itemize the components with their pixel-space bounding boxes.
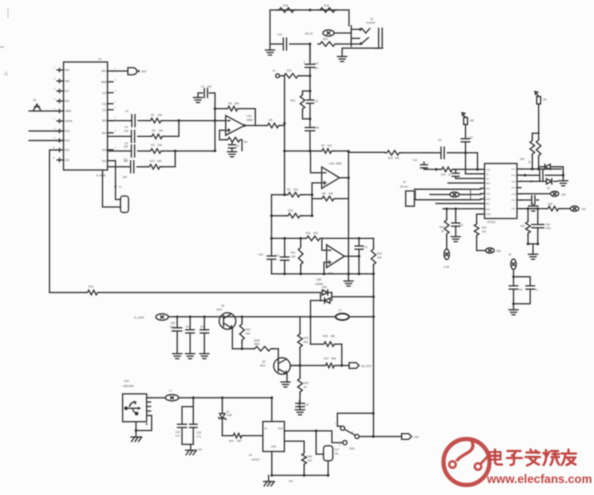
connector CN1 USB bbox=[123, 394, 147, 422]
wire pin4 row bbox=[448, 182, 481, 184]
svg-text:IN: IN bbox=[265, 427, 268, 430]
node A3 bbox=[360, 42, 363, 45]
svg-text:9014: 9014 bbox=[260, 364, 266, 367]
svg-text:R27: R27 bbox=[324, 356, 329, 360]
node D4 bbox=[311, 193, 314, 196]
svg-text:4R7: 4R7 bbox=[237, 440, 242, 443]
svg-text:104: 104 bbox=[124, 129, 129, 133]
resistor R3 bbox=[149, 149, 164, 154]
IC U3 bbox=[485, 164, 518, 219]
capacitor C14 bbox=[465, 125, 467, 139]
svg-text:C16: C16 bbox=[314, 62, 319, 66]
wire pin7 row bbox=[414, 199, 480, 201]
resistor R33 bbox=[474, 222, 479, 237]
svg-text:C22: C22 bbox=[304, 402, 309, 406]
wire loop bbox=[514, 277, 531, 310]
svg-text:R23: R23 bbox=[246, 327, 251, 331]
capacitor C7 with ground bbox=[198, 93, 215, 98]
watermark CJK text bbox=[490, 450, 503, 465]
wire pin10 bbox=[477, 214, 481, 222]
crystal Y1 bbox=[103, 161, 121, 207]
resistor R19 bbox=[318, 8, 337, 13]
svg-text:C7: C7 bbox=[201, 84, 205, 88]
wire bbox=[244, 125, 265, 127]
node I3 bbox=[303, 474, 306, 477]
node L2 bbox=[512, 302, 515, 305]
svg-text:C5: C5 bbox=[125, 142, 129, 146]
node K1 bbox=[531, 168, 534, 171]
wire long bottom-left bbox=[50, 292, 321, 294]
IC U1 A-7545 bbox=[64, 62, 108, 170]
wire right rail bbox=[373, 274, 375, 437]
jack J3 bbox=[351, 26, 382, 48]
svg-text:C8: C8 bbox=[236, 144, 240, 148]
node A5 bbox=[309, 90, 312, 93]
wire bbox=[270, 10, 349, 50]
resistor R35 bbox=[302, 451, 307, 466]
wire row r1 bbox=[521, 168, 561, 170]
capacitor C13 with stub bbox=[423, 162, 425, 164]
svg-text:R34: R34 bbox=[229, 440, 234, 443]
svg-text:OS1: OS1 bbox=[102, 160, 107, 163]
svg-text:CN1: CN1 bbox=[124, 379, 130, 383]
transistor Q2 bbox=[274, 358, 291, 375]
svg-text:10u: 10u bbox=[519, 288, 524, 291]
wire bbox=[271, 398, 273, 422]
wire bbox=[311, 301, 321, 345]
wire plus-input bbox=[220, 130, 226, 139]
svg-text:1P2: 1P2 bbox=[543, 99, 548, 102]
ground bbox=[295, 410, 304, 415]
svg-text:R32: R32 bbox=[440, 226, 445, 229]
wire bbox=[163, 150, 215, 152]
resistor R26 bbox=[311, 344, 342, 365]
node H2 bbox=[192, 396, 195, 399]
switch SW1 bbox=[337, 413, 373, 426]
wire bbox=[138, 120, 148, 122]
svg-text:10u: 10u bbox=[200, 325, 205, 328]
capacitor C12 bbox=[358, 238, 360, 274]
wire bbox=[342, 48, 379, 56]
node F3 bbox=[309, 315, 312, 318]
node A4 bbox=[309, 74, 312, 77]
svg-text:300: 300 bbox=[331, 334, 336, 338]
svg-text:LED: LED bbox=[322, 286, 327, 289]
svg-text:16V: 16V bbox=[171, 330, 176, 333]
node A2 bbox=[309, 43, 312, 46]
svg-text:51K: 51K bbox=[328, 143, 333, 147]
svg-text:R31: R31 bbox=[521, 225, 526, 228]
wire bbox=[284, 441, 304, 451]
capacitor C28 series bbox=[540, 170, 543, 181]
svg-text:U4: U4 bbox=[249, 453, 253, 457]
svg-text:A66: A66 bbox=[395, 157, 400, 160]
resistor R20 bbox=[318, 42, 337, 47]
svg-text:C4: C4 bbox=[125, 125, 129, 129]
tag A0_OUT bbox=[342, 365, 349, 367]
svg-text:K12: K12 bbox=[102, 103, 107, 106]
node F4 bbox=[340, 364, 343, 367]
svg-text:1P8: 1P8 bbox=[470, 119, 475, 122]
resistor R9 bbox=[286, 192, 302, 197]
capacitor C19 series bbox=[455, 169, 457, 172]
svg-text:C27: C27 bbox=[335, 449, 340, 452]
wire bbox=[287, 366, 300, 383]
wire output bbox=[340, 151, 349, 281]
capacitor C10 bbox=[267, 256, 276, 259]
wire bbox=[136, 416, 152, 438]
wire bbox=[477, 153, 479, 170]
svg-text:X0: X0 bbox=[33, 98, 37, 102]
wire bbox=[284, 76, 286, 195]
svg-text:R5: R5 bbox=[229, 101, 233, 105]
svg-text:16K: 16K bbox=[158, 143, 163, 147]
resistor R25 bbox=[299, 366, 301, 404]
capacitor C33 bbox=[526, 286, 535, 289]
wire bottom bbox=[272, 452, 328, 476]
svg-text:R24: R24 bbox=[304, 336, 309, 340]
wire left rail bbox=[271, 195, 273, 274]
resistor R12 bbox=[300, 238, 302, 274]
resistor R27 bbox=[290, 365, 342, 367]
diode LED1 bbox=[321, 290, 328, 301]
svg-text:4148: 4148 bbox=[227, 414, 233, 417]
svg-text:10K: 10K bbox=[291, 255, 296, 259]
node G2 bbox=[241, 347, 244, 350]
svg-text:P01: P01 bbox=[497, 250, 502, 253]
svg-text:R16: R16 bbox=[288, 208, 293, 212]
resistor R17 bbox=[147, 165, 162, 170]
node F2 bbox=[372, 315, 375, 318]
svg-text:510: 510 bbox=[482, 230, 487, 233]
transistor Q1 bbox=[219, 313, 236, 330]
svg-text:LD1117: LD1117 bbox=[251, 458, 260, 462]
svg-text:A0_OUT: A0_OUT bbox=[361, 364, 372, 368]
svg-text:16K: 16K bbox=[158, 113, 163, 117]
svg-text:C9: C9 bbox=[438, 138, 442, 142]
node G1 bbox=[241, 315, 244, 318]
wire bbox=[334, 150, 349, 152]
resistor R36 bbox=[546, 206, 561, 211]
capacitor C16 polarized bbox=[305, 64, 315, 67]
connector V01 plug bbox=[570, 206, 578, 211]
resistor R5 bbox=[226, 106, 240, 111]
resistor R13 bbox=[373, 238, 375, 274]
svg-text:1K: 1K bbox=[448, 173, 451, 176]
svg-text:C24: C24 bbox=[175, 431, 180, 434]
svg-text:R35: R35 bbox=[308, 455, 313, 458]
svg-text:220u: 220u bbox=[169, 326, 175, 329]
capacitor C24 bbox=[182, 398, 193, 445]
IC U3 right pins bbox=[517, 168, 521, 170]
svg-text:R2: R2 bbox=[152, 129, 156, 133]
capacitor C21 bbox=[189, 317, 191, 354]
capacitor C31 with ground bbox=[455, 209, 457, 223]
IC CN1 pins bbox=[147, 398, 151, 416]
ground bbox=[281, 382, 290, 387]
ground bbox=[173, 354, 182, 359]
svg-text:100u: 100u bbox=[546, 227, 552, 230]
svg-text:+: + bbox=[303, 61, 305, 65]
diode Z1 zener bbox=[219, 398, 226, 436]
svg-text:K13: K13 bbox=[102, 92, 107, 95]
capacitor C5 bbox=[131, 145, 134, 157]
watermark logo circle bbox=[444, 439, 490, 485]
wire bbox=[300, 75, 310, 77]
wire pin9 row bbox=[443, 208, 481, 210]
wire row1 bbox=[108, 120, 132, 122]
buffer RST output bbox=[113, 68, 137, 75]
svg-text:1K: 1K bbox=[528, 161, 531, 164]
svg-text:OSC: OSC bbox=[65, 130, 70, 133]
resistor R11 bbox=[304, 236, 322, 241]
svg-text:+5V: +5V bbox=[198, 449, 203, 452]
inductor L2 ferrite bbox=[336, 314, 349, 321]
svg-text:U2A: U2A bbox=[329, 162, 334, 166]
wire row r6 bbox=[521, 208, 546, 210]
capacitor C11 bbox=[284, 238, 286, 274]
svg-text:104: 104 bbox=[207, 84, 212, 88]
svg-text:C12: C12 bbox=[363, 245, 368, 249]
wire bbox=[316, 431, 323, 454]
resistor R28 bbox=[242, 349, 278, 361]
svg-text:R9: R9 bbox=[287, 187, 291, 191]
wire bbox=[29, 130, 64, 132]
svg-text:Service: Service bbox=[400, 186, 409, 189]
inductor L1 bead bbox=[151, 397, 166, 399]
IC U1 left pins bbox=[57, 68, 64, 71]
wire bbox=[532, 244, 534, 254]
wire bbox=[138, 150, 149, 152]
wire bbox=[349, 151, 385, 153]
svg-text:R29: R29 bbox=[520, 158, 525, 161]
svg-text:R25: R25 bbox=[304, 381, 309, 385]
wire A_VDD row bbox=[169, 316, 374, 318]
node G3 bbox=[176, 315, 179, 318]
svg-text:C13: C13 bbox=[413, 159, 418, 162]
wire bbox=[337, 38, 369, 44]
wire bbox=[285, 150, 321, 152]
node K0 bbox=[538, 132, 540, 134]
connector A_IN plug bbox=[444, 249, 449, 259]
svg-text:2K2: 2K2 bbox=[246, 331, 251, 335]
wire bbox=[50, 150, 58, 293]
svg-text:R17: R17 bbox=[150, 159, 155, 163]
svg-text:A-7545: A-7545 bbox=[96, 174, 106, 178]
node J2 bbox=[445, 207, 448, 210]
ground bbox=[528, 254, 537, 259]
wire bbox=[137, 166, 147, 168]
svg-text:10u: 10u bbox=[314, 66, 319, 70]
svg-text:A: A bbox=[4, 72, 8, 78]
node A7 bbox=[283, 122, 286, 125]
resistor R10 bbox=[385, 151, 401, 156]
svg-text:AUX: AUX bbox=[65, 140, 70, 143]
node I1 bbox=[270, 396, 273, 399]
diode D2 loop bbox=[539, 164, 564, 175]
svg-text:4558: 4558 bbox=[247, 118, 253, 122]
svg-text:360: 360 bbox=[235, 101, 240, 105]
svg-text:Q1: Q1 bbox=[221, 304, 225, 308]
wire pin1 row bbox=[424, 168, 481, 170]
svg-text:RXD: RXD bbox=[486, 199, 491, 201]
node D2 bbox=[347, 150, 350, 153]
svg-text:4.7u: 4.7u bbox=[197, 435, 202, 438]
transducer X0 input bbox=[29, 104, 57, 111]
svg-text:B40: B40 bbox=[332, 356, 337, 360]
wire row r4 bbox=[521, 193, 550, 195]
node A6 bbox=[309, 118, 312, 121]
svg-text:P17: P17 bbox=[65, 90, 70, 93]
connector PH plug bbox=[464, 118, 468, 125]
node K2 bbox=[524, 174, 527, 177]
capacitor C9 series bbox=[441, 147, 444, 159]
capacitor C18 bbox=[305, 128, 315, 131]
svg-text:A+: A+ bbox=[273, 69, 277, 73]
op-amp U2A bbox=[226, 116, 245, 136]
svg-text:U2B: U2B bbox=[316, 277, 321, 281]
capacitor C22 bbox=[296, 403, 305, 406]
svg-text:R7: R7 bbox=[322, 143, 326, 147]
wire bbox=[214, 93, 216, 151]
svg-text:A_VDD: A_VDD bbox=[134, 316, 145, 320]
svg-text:GND: GND bbox=[486, 214, 491, 216]
svg-text:C3: C3 bbox=[125, 109, 129, 113]
svg-text:AN1: AN1 bbox=[65, 69, 70, 72]
svg-text:5K6: 5K6 bbox=[304, 340, 309, 344]
svg-text:1K: 1K bbox=[441, 230, 444, 233]
svg-text:C31: C31 bbox=[459, 224, 464, 227]
svg-text:A0_IN: A0_IN bbox=[305, 32, 313, 36]
wire bbox=[215, 109, 255, 126]
svg-text:+3V: +3V bbox=[288, 479, 293, 483]
svg-text:V01: V01 bbox=[582, 208, 587, 211]
capacitor C17 bbox=[307, 100, 314, 103]
svg-text:104: 104 bbox=[123, 175, 128, 179]
node I2 bbox=[315, 430, 318, 433]
svg-text:10u: 10u bbox=[186, 325, 191, 328]
svg-text:0.1u: 0.1u bbox=[175, 435, 180, 438]
svg-text:R6: R6 bbox=[269, 118, 273, 122]
wire top bus bbox=[272, 237, 374, 239]
svg-text:CAPIN: CAPIN bbox=[65, 120, 73, 123]
svg-text:RST: RST bbox=[102, 70, 107, 73]
resistor R16 bbox=[286, 213, 302, 218]
IC U1 right pins bbox=[108, 70, 114, 72]
wire bbox=[163, 120, 226, 122]
wire bbox=[232, 328, 242, 348]
resistor R1 bbox=[149, 118, 164, 123]
op-amp U2B bbox=[327, 245, 345, 268]
svg-text:SC0: SC0 bbox=[102, 149, 107, 152]
svg-text:REM: REM bbox=[101, 81, 106, 84]
resistor R32 bbox=[446, 209, 448, 218]
wire bbox=[447, 152, 477, 154]
svg-text:C15: C15 bbox=[277, 33, 282, 37]
cable outline bbox=[416, 189, 471, 200]
svg-text:R20: R20 bbox=[323, 37, 328, 41]
svg-text:VREF: VREF bbox=[65, 110, 72, 113]
wire pin6 row bbox=[430, 194, 450, 196]
resistor R24 bbox=[299, 317, 301, 366]
node E4 bbox=[358, 255, 361, 258]
svg-text:500K: 500K bbox=[254, 343, 260, 346]
wire bbox=[312, 195, 320, 216]
svg-text:510: 510 bbox=[308, 459, 313, 462]
svg-text:R12: R12 bbox=[291, 251, 296, 255]
wire bbox=[284, 431, 342, 443]
resistor R14 bbox=[440, 167, 455, 172]
earth ground bbox=[131, 437, 142, 442]
wire bbox=[162, 151, 175, 167]
ground bbox=[186, 354, 195, 359]
capacitor C3 bbox=[132, 115, 135, 127]
svg-text:C6: C6 bbox=[124, 157, 128, 161]
IC U3 left pins bbox=[481, 168, 485, 170]
resistor R21 bbox=[282, 74, 300, 79]
resistor R29 bbox=[530, 139, 535, 156]
svg-text:GND: GND bbox=[271, 447, 276, 449]
node D7 bbox=[464, 151, 467, 154]
resistor R15 bbox=[86, 290, 100, 295]
svg-text:VDD: VDD bbox=[486, 169, 491, 171]
node K5 bbox=[527, 243, 530, 246]
svg-text:USB MINI: USB MINI bbox=[123, 385, 134, 388]
wire bbox=[138, 135, 150, 137]
resistor R18 bbox=[277, 8, 296, 13]
diode LED2 bbox=[325, 293, 332, 304]
svg-text:R22: R22 bbox=[290, 99, 295, 103]
svg-text:C17: C17 bbox=[314, 99, 319, 103]
svg-text:16K: 16K bbox=[157, 159, 162, 163]
svg-text:SD0: SD0 bbox=[102, 120, 107, 123]
node F5 bbox=[299, 364, 302, 367]
wire row4 bbox=[108, 166, 130, 168]
resistor R23 bbox=[241, 317, 243, 349]
wire bbox=[29, 140, 64, 142]
capacitor C15 bbox=[283, 38, 286, 50]
svg-text:A TR: A TR bbox=[444, 266, 450, 269]
node L1 bbox=[512, 275, 515, 278]
svg-text:R13: R13 bbox=[377, 252, 382, 256]
node B2 bbox=[214, 119, 217, 122]
node I4 bbox=[372, 412, 375, 415]
node A8 bbox=[283, 150, 286, 153]
node E3 bbox=[358, 237, 361, 240]
svg-text:10K: 10K bbox=[377, 256, 382, 260]
node D3 bbox=[283, 193, 286, 196]
svg-text:AT2313: AT2313 bbox=[487, 221, 496, 224]
svg-text:+5D: +5D bbox=[414, 435, 419, 439]
wire bbox=[321, 293, 374, 301]
svg-text:SW1: SW1 bbox=[350, 448, 356, 451]
svg-text:C10: C10 bbox=[258, 252, 263, 256]
svg-text:R19: R19 bbox=[324, 4, 329, 8]
resistor R7 bbox=[320, 149, 334, 154]
node H1 bbox=[135, 429, 138, 432]
node D1 bbox=[309, 150, 312, 153]
svg-text:9014: 9014 bbox=[217, 309, 223, 312]
node D6 bbox=[270, 214, 273, 217]
svg-text:R33: R33 bbox=[482, 227, 487, 230]
svg-text:P16: P16 bbox=[65, 100, 70, 103]
wire output bbox=[344, 255, 359, 257]
svg-text:RST: RST bbox=[142, 69, 148, 73]
capacitor C27 bbox=[324, 446, 333, 461]
wire bbox=[302, 194, 312, 196]
svg-text:A01: A01 bbox=[562, 193, 567, 196]
wire bbox=[309, 44, 311, 62]
